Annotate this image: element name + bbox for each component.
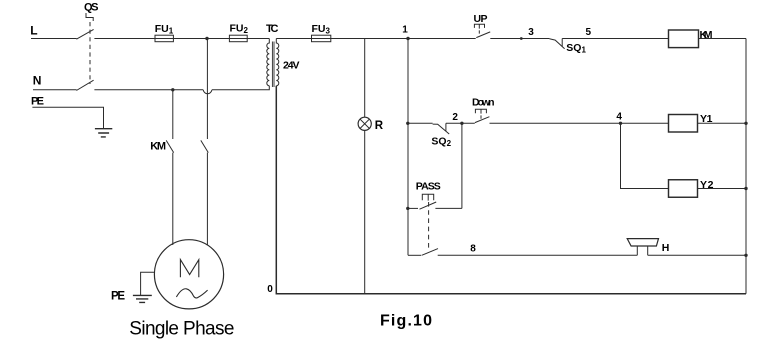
fuse FU2 bbox=[229, 35, 247, 42]
svg-text:3: 3 bbox=[528, 27, 534, 38]
svg-text:Fig.10: Fig.10 bbox=[380, 313, 432, 330]
wire bottom rung H to right rail bbox=[648, 254, 746, 256]
fuse FU3 bbox=[312, 35, 331, 42]
wire top line FU3 to UP button bbox=[331, 38, 476, 40]
wire top line SQ1 to KM coil bbox=[562, 38, 668, 40]
svg-text:PASS: PASS bbox=[416, 181, 441, 193]
switch PASS lower contact blade bbox=[422, 249, 438, 256]
label node 3 bbox=[528, 27, 534, 38]
wire PASS rung left bbox=[408, 207, 418, 209]
ground symbol (PE) bbox=[95, 129, 112, 137]
node junction dot on L line bbox=[205, 37, 208, 40]
label N bbox=[33, 74, 42, 88]
label node 1 bbox=[402, 25, 408, 36]
label node 4 bbox=[616, 111, 622, 122]
motor AC wave symbol bbox=[176, 289, 207, 298]
switch PASS cap bbox=[422, 194, 433, 200]
label KM (main contacts) bbox=[150, 140, 166, 152]
node dot rung2 left bbox=[406, 122, 409, 125]
svg-text:H: H bbox=[662, 242, 670, 254]
node junction dot on N line bbox=[171, 88, 174, 91]
svg-text:PE: PE bbox=[111, 290, 125, 302]
svg-text:24V: 24V bbox=[283, 60, 300, 72]
pushbutton Down stem bbox=[480, 109, 482, 119]
svg-text:FU3: FU3 bbox=[312, 23, 331, 36]
motor M1 circle bbox=[154, 240, 223, 309]
wire KM coil to right rail bbox=[699, 38, 747, 40]
wire node2 down to PASS rung bbox=[461, 123, 463, 208]
label TC bbox=[266, 23, 279, 35]
svg-text:2: 2 bbox=[452, 112, 458, 123]
label UP bbox=[474, 13, 488, 25]
node 1 junction dot bbox=[406, 37, 409, 40]
switch PASS dashed stem bbox=[428, 202, 430, 251]
svg-text:Single Phase: Single Phase bbox=[129, 318, 235, 339]
contactor KM main contact left (blade) bbox=[166, 140, 174, 152]
svg-text:R: R bbox=[375, 120, 384, 132]
wire L line from FU1 to TC bbox=[173, 38, 269, 40]
svg-text:FU2: FU2 bbox=[230, 23, 249, 36]
wire left control rail bbox=[407, 39, 409, 256]
switch QS pole on N (blade) bbox=[76, 80, 93, 90]
svg-text:8: 8 bbox=[470, 244, 476, 255]
svg-text:SQ1: SQ1 bbox=[566, 42, 586, 55]
svg-text:5: 5 bbox=[586, 27, 592, 38]
node dot right rail at bottom rung bbox=[744, 254, 747, 257]
limit switch SQ1 wedge and blade bbox=[549, 39, 564, 49]
wire node4 down to Y2 rung bbox=[621, 123, 669, 188]
wire KM branch from L line (with hop crossing) bbox=[206, 39, 208, 140]
label FU2 bbox=[230, 23, 249, 36]
pushbutton UP stem bbox=[478, 24, 480, 33]
wire L line from QS to FU1 bbox=[94, 38, 155, 40]
wire right rail bbox=[745, 39, 747, 294]
wire L line left segment bbox=[31, 38, 77, 40]
label PE bbox=[31, 96, 44, 108]
wire top line UP to SQ1 bbox=[490, 38, 549, 40]
coil KM bbox=[669, 30, 699, 48]
wire N line from QS to junction bbox=[94, 89, 203, 91]
svg-text:KM: KM bbox=[150, 140, 166, 152]
label node 8 bbox=[470, 244, 476, 255]
coil Y2 bbox=[669, 180, 698, 198]
label Down bbox=[472, 96, 495, 108]
label H bbox=[662, 242, 670, 254]
label Fig.10 bbox=[380, 313, 432, 330]
svg-text:4: 4 bbox=[616, 111, 622, 122]
wire hop (N line crossing over KM branch) bbox=[203, 90, 212, 94]
label Single Phase bbox=[129, 318, 235, 339]
node dot PASS rung left bbox=[406, 207, 409, 210]
label R bbox=[375, 120, 384, 132]
label QS bbox=[84, 2, 99, 14]
label Y2 bbox=[700, 179, 714, 191]
wire lamp branch upper bbox=[364, 39, 366, 118]
wire 24V top line from TC to FU3 bbox=[276, 38, 311, 40]
wire Y2 coil to right rail bbox=[698, 188, 747, 190]
label KM (coil) bbox=[700, 29, 713, 41]
label SQ2 bbox=[431, 135, 451, 148]
label 24V bbox=[283, 60, 300, 72]
switch PASS upper contact blade bbox=[420, 202, 437, 209]
label FU1 bbox=[155, 23, 174, 36]
node dot right rail at Y1 bbox=[744, 122, 747, 125]
lamp R cross bbox=[360, 119, 369, 128]
node 2 junction dot bbox=[460, 122, 463, 125]
label Y1 bbox=[700, 113, 713, 125]
motor letter M bbox=[180, 260, 198, 278]
wire Y1 coil to right rail bbox=[698, 122, 747, 124]
svg-text:FU1: FU1 bbox=[155, 23, 174, 36]
node dot after UP bbox=[520, 37, 523, 40]
linkage QS bracket bbox=[86, 13, 93, 21]
label node 0 bbox=[267, 284, 273, 295]
wire KM left contact to motor bbox=[172, 153, 174, 245]
transformer TC primary winding bbox=[267, 39, 270, 86]
svg-text:1: 1 bbox=[402, 25, 408, 36]
pushbutton UP cap bbox=[474, 24, 484, 28]
svg-text:UP: UP bbox=[474, 13, 488, 25]
pushbutton Down cap bbox=[475, 109, 486, 113]
limit switch SQ1 stub bbox=[561, 39, 563, 47]
lamp R circle bbox=[358, 117, 371, 130]
svg-text:N: N bbox=[33, 74, 42, 88]
svg-text:TC: TC bbox=[266, 23, 279, 35]
wire KM branch from N line bbox=[172, 90, 174, 139]
pushbutton Down contact blade bbox=[475, 117, 490, 123]
label SQ1 bbox=[566, 42, 586, 55]
wire rung2 Down to Y1 coil bbox=[490, 122, 669, 124]
wire rung2 rail to SQ2 bbox=[408, 122, 433, 124]
limit switch SQ2 stub bbox=[445, 123, 447, 131]
buzzer H legs bbox=[637, 246, 647, 255]
wire rung2 SQ2 to Down button bbox=[446, 122, 475, 124]
transformer TC core bbox=[272, 42, 274, 88]
transformer TC secondary winding bbox=[276, 39, 279, 86]
label PASS bbox=[416, 181, 441, 193]
svg-text:KM: KM bbox=[700, 29, 713, 41]
node 4 junction dot bbox=[619, 122, 622, 125]
svg-text:0: 0 bbox=[267, 284, 273, 295]
wire PASS rung right to node2 branch bbox=[435, 207, 462, 209]
contactor KM main contact right (blade) bbox=[201, 140, 209, 152]
label PE (motor) bbox=[111, 290, 125, 302]
wire KM right contact to motor bbox=[206, 153, 208, 246]
label node 2 bbox=[452, 112, 458, 123]
ground symbol (motor PE) bbox=[133, 295, 152, 302]
svg-text:PE: PE bbox=[31, 96, 44, 108]
wire N line from hop to TC bbox=[212, 86, 269, 90]
svg-text:SQ2: SQ2 bbox=[431, 135, 451, 148]
svg-text:Down: Down bbox=[472, 96, 495, 108]
wire left rail corner to bottom rung bbox=[408, 254, 421, 256]
svg-text:L: L bbox=[30, 24, 37, 38]
wire lamp branch lower bbox=[364, 130, 366, 293]
wire N line left segment bbox=[33, 89, 77, 91]
linkage QS dashed shaft bbox=[89, 22, 91, 84]
buzzer H body bbox=[627, 239, 658, 246]
wire PE line bbox=[32, 107, 103, 128]
label node 5 bbox=[586, 27, 592, 38]
limit switch SQ2 wedge and blade bbox=[433, 124, 450, 134]
label L bbox=[30, 24, 37, 38]
fuse FU1 bbox=[155, 35, 173, 42]
node dot right rail at Y2 bbox=[744, 187, 747, 190]
wire motor to PE ground bbox=[141, 272, 155, 295]
svg-text:Y2: Y2 bbox=[700, 179, 714, 191]
pushbutton UP contact blade bbox=[476, 32, 490, 38]
svg-text:QS: QS bbox=[84, 2, 99, 14]
label FU3 bbox=[312, 23, 331, 36]
switch QS pole on L (blade) bbox=[76, 29, 93, 39]
wire bottom rung to H bbox=[438, 254, 638, 256]
wire bottom 0 bus bbox=[276, 86, 746, 294]
coil Y1 bbox=[669, 115, 698, 133]
